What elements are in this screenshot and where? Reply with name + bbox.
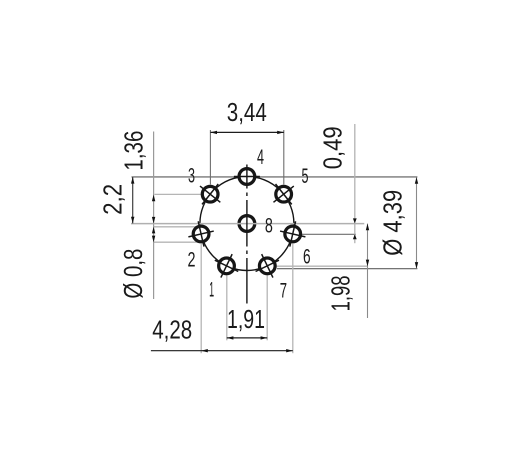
- svg-text:Ø 4,39: Ø 4,39: [378, 190, 408, 256]
- dimension line 1,91: [227, 337, 267, 339]
- wire: vertical dimension carrier x=153.6: [153, 132, 155, 300]
- dimension arrows 0,8 on x=153.6: [152, 227, 155, 234]
- wire: vertical extension under pin6: [292, 244, 294, 354]
- pin 7: [259, 258, 275, 274]
- pin 6 cross ticks: [280, 221, 305, 246]
- dimension arrows 1,98 on x=367.5: [366, 224, 369, 231]
- dimension arrows 4,39 on x=416.5: [415, 177, 418, 184]
- wire: vertical extension under pin2: [200, 244, 202, 354]
- wire: 3,44 left extension line: [209, 130, 211, 185]
- svg-text:0,49: 0,49: [318, 126, 348, 169]
- svg-text:1: 1: [209, 279, 214, 302]
- pin 2: [193, 226, 209, 242]
- pin 4 cross tick (horizontal): [234, 176, 260, 178]
- wire: vertical extension under pin7: [266, 276, 268, 341]
- wire: circle bottom extension line right: [277, 268, 417, 270]
- svg-text:Ø 0,8: Ø 0,8: [118, 249, 148, 299]
- pin 5 cross ticks: [273, 184, 293, 204]
- pin 2 cross ticks: [188, 221, 213, 246]
- svg-text:1,91: 1,91: [227, 304, 265, 334]
- pin 5: [276, 186, 292, 202]
- pin 1: [219, 258, 235, 274]
- pin 1 cross ticks: [215, 254, 238, 277]
- connector outline circle: [200, 177, 294, 271]
- svg-text:3: 3: [188, 165, 195, 188]
- pin 6: [285, 226, 301, 242]
- pin 7 cross ticks: [256, 254, 279, 277]
- dimension line 3,44: [210, 131, 283, 133]
- pin 3 cross ticks: [200, 184, 220, 204]
- svg-text:8: 8: [265, 215, 273, 238]
- dimension line 4,28: [151, 350, 293, 352]
- dimension arrows 0,49 outside on x=354.8: [353, 218, 357, 223]
- svg-text:1,36: 1,36: [118, 131, 148, 171]
- wire: vertical extension under pin1: [226, 276, 228, 341]
- wire: 4,39 dimension line x=416.5: [416, 177, 418, 269]
- wire: 3,44 right extension line: [283, 130, 285, 185]
- svg-text:6: 6: [303, 246, 311, 269]
- svg-text:2: 2: [188, 248, 196, 271]
- svg-text:7: 7: [280, 279, 287, 302]
- pin 4: [239, 169, 255, 185]
- svg-text:3,44: 3,44: [227, 97, 267, 127]
- wire: pin3 row extension line: [155, 193, 202, 195]
- svg-text:4: 4: [257, 146, 264, 169]
- wire: pin4 row horizontal extension line: [132, 176, 418, 178]
- svg-text:2,2: 2,2: [98, 184, 128, 215]
- wire: pin2 bottom tangent extension line: [154, 241, 197, 243]
- wire: pin6 row extension line right: [302, 233, 356, 235]
- pin 8 (center): [239, 216, 255, 232]
- wire: pin7 row extension line right: [277, 265, 368, 267]
- svg-text:5: 5: [302, 165, 309, 188]
- dimension line 2,2 vertical: [132, 177, 134, 223]
- dimension arrows 1,36 on x=153.6: [152, 195, 155, 202]
- wire: horizontal centre row line (grey) through pin 8: [131, 223, 364, 225]
- svg-text:1,98: 1,98: [326, 275, 356, 311]
- pin 3: [202, 186, 218, 202]
- wire: pin2 top tangent extension line: [154, 226, 197, 228]
- svg-text:4,28: 4,28: [152, 314, 192, 344]
- wire: 0,49 dimension carrier x=354.8: [354, 124, 356, 243]
- wire: vertical centreline dash-dot through pins 4 and 8: [246, 165, 248, 304]
- wire: 1,98 dimension carrier x=367.5: [367, 224, 369, 318]
